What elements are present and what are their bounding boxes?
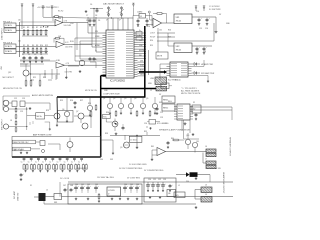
svg-text:5u: 5u [57, 161, 59, 163]
svg-text:C48: C48 [70, 185, 73, 187]
svg-text:C17: C17 [196, 51, 199, 53]
svg-text:RCA IN: RCA IN [5, 29, 12, 32]
svg-text:ROUT: ROUT [150, 37, 156, 39]
svg-text:MIN DETECTOR ON: MIN DETECTOR ON [3, 88, 22, 90]
svg-text:MIC DETECT: MIC DETECT [3, 77, 15, 79]
svg-text:COMPUTER SIDE: COMPUTER SIDE [103, 94, 120, 96]
svg-text:C10: C10 [147, 26, 150, 28]
svg-text:R30: R30 [106, 112, 109, 114]
svg-text:D+: D+ [139, 30, 141, 32]
svg-text:C12: C12 [14, 98, 17, 100]
svg-text:J5: J5 [46, 190, 48, 192]
svg-text:C15: C15 [199, 28, 202, 30]
svg-text:MIC INPUT: MIC INPUT [2, 118, 4, 130]
svg-text:DAC MODE SELECT: DAC MODE SELECT [103, 3, 125, 6]
svg-text:C13: C13 [22, 98, 25, 100]
svg-text:R15: R15 [150, 45, 153, 47]
svg-text:C41: C41 [81, 184, 84, 186]
svg-text:SPK OUT L: SPK OUT L [3, 21, 12, 23]
svg-text:C9: C9 [137, 26, 139, 28]
svg-text:Q3: Q3 [124, 98, 126, 100]
svg-text:Q5: Q5 [146, 98, 148, 100]
svg-text:C18: C18 [203, 51, 206, 53]
svg-text:C31: C31 [153, 179, 156, 181]
svg-text:12MHz: 12MHz [137, 12, 143, 14]
svg-text:D# 4001 SMD 0805: D# 4001 SMD 0805 [129, 164, 147, 166]
svg-text:RCA IN: RCA IN [5, 50, 12, 53]
svg-text:C45: C45 [130, 184, 133, 186]
svg-text:C20: C20 [144, 123, 147, 125]
svg-text:SPK AMP PWR: SPK AMP PWR [201, 72, 215, 75]
svg-text:Q11: Q11 [196, 141, 199, 143]
svg-text:D5: D5 [14, 150, 16, 152]
svg-text:J3: J3 [205, 185, 207, 187]
svg-text:C16: C16 [205, 28, 208, 30]
svg-text:X2: X2 [193, 102, 195, 104]
svg-text:IC5 LM4880: IC5 LM4880 [157, 123, 169, 125]
svg-text:R1: R1 [23, 27, 25, 29]
svg-text:REG TEXT: REG TEXT [78, 168, 88, 170]
svg-text:C4: C4 [40, 54, 42, 56]
svg-text:IC2 TPA6111: IC2 TPA6111 [168, 79, 181, 82]
svg-text:C40: C40 [75, 184, 78, 186]
svg-text:5u: 5u [28, 161, 30, 163]
svg-text:Q2: Q2 [113, 98, 115, 100]
svg-text:100 OHM: 100 OHM [65, 47, 73, 49]
svg-text:SPK OUT R: SPK OUT R [3, 42, 13, 44]
svg-text:C33: C33 [163, 179, 166, 181]
svg-text:Q12: Q12 [8, 72, 11, 74]
svg-text:C2: C2 [28, 54, 30, 56]
svg-text:J8: J8 [10, 120, 12, 122]
svg-text:R8: R8 [36, 45, 38, 47]
svg-text:C1: C1 [22, 54, 24, 56]
svg-text:C42: C42 [87, 184, 90, 186]
svg-text:100: 100 [159, 30, 162, 32]
svg-text:AGND: AGND [95, 44, 101, 47]
svg-text:IC1 PCM2902: IC1 PCM2902 [110, 80, 126, 83]
svg-text:5u: 5u [35, 161, 37, 163]
svg-text:AUDIO MUTE SWITCH: AUDIO MUTE SWITCH [32, 94, 54, 97]
svg-text:5u: 5u [71, 161, 73, 163]
svg-text:R16: R16 [168, 30, 171, 32]
svg-text:C22: C22 [160, 112, 163, 114]
svg-text:5V0: 5V0 [100, 159, 103, 161]
svg-text:R9: R9 [40, 27, 42, 29]
svg-text:C6: C6 [98, 20, 100, 22]
svg-text:15V 400V 3A+ REG: 15V 400V 3A+ REG [97, 176, 114, 179]
svg-text:J9: J9 [3, 101, 5, 103]
svg-text:Q6: Q6 [62, 109, 64, 111]
svg-text:L1: L1 [178, 185, 180, 187]
svg-text:100 OHM: 100 OHM [64, 25, 72, 27]
svg-text:J6: J6 [205, 146, 207, 148]
svg-text:D10: D10 [186, 181, 189, 183]
svg-text:LC5205: LC5205 [108, 190, 115, 192]
svg-text:R40: R40 [171, 138, 174, 140]
svg-text:C47: C47 [63, 185, 66, 187]
svg-text:C5: C5 [86, 20, 88, 22]
svg-text:LINE INPUT: LINE INPUT [2, 27, 4, 40]
svg-text:R31: R31 [144, 131, 147, 133]
svg-text:C# 470/16V: C# 470/16V [209, 6, 220, 8]
svg-text:R33: R33 [105, 133, 108, 135]
svg-text:SPEAKER OUTPUT: SPEAKER OUTPUT [229, 137, 232, 157]
svg-text:R4: R4 [27, 45, 29, 47]
svg-text:5u: 5u [78, 161, 80, 163]
svg-text:R+: R+ [95, 59, 97, 61]
svg-text:SSPND: SSPND [139, 50, 146, 52]
svg-text:MIC A: MIC A [37, 115, 43, 118]
svg-text:Q4: Q4 [134, 98, 136, 100]
svg-text:5V CONVERTER REG: 5V CONVERTER REG [144, 170, 164, 172]
svg-text:5u: 5u [49, 161, 51, 163]
svg-text:RCA IN: RCA IN [5, 45, 12, 48]
svg-text:R7: R7 [36, 27, 38, 29]
svg-text:78L05: 78L05 [176, 50, 182, 52]
svg-text:C25: C25 [20, 111, 23, 113]
svg-text:MUTE SW ON: MUTE SW ON [85, 90, 97, 92]
svg-text:C32: C32 [158, 179, 161, 181]
svg-text:J7: J7 [205, 159, 207, 161]
svg-text:R11: R11 [45, 27, 48, 29]
svg-text:C6: C6 [90, 4, 92, 6]
svg-text:U6: U6 [168, 193, 170, 195]
svg-text:RCA IN: RCA IN [5, 24, 12, 27]
svg-text:USB 5V0: USB 5V0 [18, 192, 20, 201]
svg-text:AMP POWER CONT: AMP POWER CONT [33, 134, 52, 137]
svg-text:R17: R17 [168, 37, 171, 39]
svg-text:C23: C23 [160, 117, 163, 119]
svg-text:MUTE: MUTE [157, 56, 163, 58]
svg-text:C14: C14 [196, 11, 199, 13]
svg-text:R21: R21 [33, 77, 36, 79]
svg-text:R20: R20 [88, 103, 91, 105]
svg-text:R5: R5 [32, 27, 34, 29]
svg-text:R25: R25 [60, 100, 63, 102]
svg-text:D6: D6 [20, 150, 22, 152]
svg-text:HP AMP PWR: HP AMP PWR [201, 63, 214, 66]
svg-text:R27: R27 [80, 100, 83, 102]
svg-text:+5V SPK PWR SUPPLY: +5V SPK PWR SUPPLY [37, 7, 59, 9]
svg-text:FB1: FB1 [54, 202, 57, 204]
svg-text:C43: C43 [95, 184, 98, 186]
svg-text:DC ADP: DC ADP [13, 190, 16, 199]
svg-text:R12: R12 [45, 45, 48, 47]
svg-text:R14: R14 [150, 40, 153, 42]
svg-text:Q9: Q9 [120, 147, 122, 149]
svg-text:DC +5V IN: DC +5V IN [60, 178, 70, 180]
svg-text:R26: R26 [70, 100, 73, 102]
svg-text:C8: C8 [95, 15, 97, 17]
svg-text:REG2: REG2 [163, 108, 168, 110]
svg-text:R6: R6 [32, 45, 34, 47]
svg-text:3V3: 3V3 [110, 159, 113, 161]
svg-text:JP: JP [106, 20, 108, 22]
svg-text:C3: C3 [34, 54, 36, 56]
svg-text:LOUT: LOUT [150, 33, 156, 35]
svg-text:MUTE: PIN P3 MUTE: MUTE: PIN P3 MUTE [181, 93, 201, 95]
svg-text:5u: 5u [21, 161, 23, 163]
svg-text:D# 4001: D# 4001 [130, 140, 136, 142]
svg-text:F1: F1 [30, 185, 32, 187]
svg-text:C44: C44 [124, 184, 127, 186]
svg-text:R23: R23 [46, 110, 49, 112]
svg-text:DOUT: DOUT [140, 65, 145, 67]
svg-text:5u: 5u [64, 161, 66, 163]
svg-text:3V3: 3V3 [159, 102, 162, 104]
svg-text:REMOTE PWR ON-C: REMOTE PWR ON-C [13, 142, 29, 144]
svg-text:5u: 5u [42, 161, 44, 163]
svg-text:DC OUT 5V0 SW: DC OUT 5V0 SW [206, 168, 221, 170]
svg-text:5V-15V CONVERTER REG: 5V-15V CONVERTER REG [119, 168, 143, 170]
svg-text:78L05: 78L05 [176, 21, 182, 23]
svg-text:L+: L+ [95, 50, 97, 52]
svg-text:R2: R2 [23, 45, 25, 47]
svg-text:VREF: VREF [95, 36, 100, 38]
svg-text:S# SW PWR: S# SW PWR [209, 9, 221, 11]
svg-text:C46: C46 [136, 184, 139, 186]
svg-text:5V CONV REG: 5V CONV REG [127, 178, 140, 180]
svg-text:SEL: SEL [139, 55, 142, 57]
svg-text:R3: R3 [27, 27, 29, 29]
svg-text:Q7: Q7 [76, 111, 78, 113]
svg-text:Q1: Q1 [103, 98, 105, 100]
svg-text:R22: R22 [43, 77, 46, 79]
svg-text:5V0: 5V0 [175, 195, 178, 197]
svg-text:J4: J4 [205, 194, 207, 196]
svg-text:J10: J10 [18, 20, 21, 22]
svg-text:100 OHM: 100 OHM [65, 72, 73, 74]
svg-text:HEADPHONE OUTPUT: HEADPHONE OUTPUT [222, 172, 225, 194]
svg-text:JP: JP [119, 20, 121, 22]
svg-text:Q10: Q10 [186, 135, 189, 137]
svg-text:J11: J11 [18, 41, 21, 43]
svg-text:C7: C7 [86, 15, 88, 17]
svg-text:R5 2K2: R5 2K2 [58, 11, 63, 13]
svg-text:J2: J2 [150, 90, 152, 92]
svg-text:SPEAKER & AMP POWER MODE: SPEAKER & AMP POWER MODE [159, 129, 190, 132]
svg-text:R10: R10 [40, 45, 43, 47]
svg-text:R41: R41 [151, 146, 154, 148]
svg-text:C30: C30 [148, 179, 151, 181]
